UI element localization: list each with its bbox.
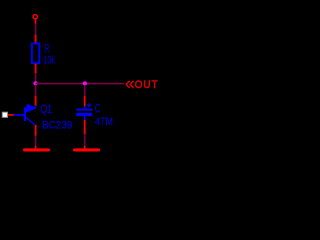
emitter lead bbox=[25, 116, 36, 125]
svg-text:10k: 10k bbox=[43, 55, 55, 67]
top stub bbox=[84, 106, 86, 110]
capacitor C1 symbol bbox=[76, 103, 92, 120]
wire net V+ to resistor bbox=[35, 24, 37, 36]
collector stub bbox=[35, 106, 37, 109]
svg-text:47M: 47M bbox=[95, 116, 113, 128]
capacitor C1 bottom pin bbox=[84, 120, 86, 135]
capacitor C1 top pin bbox=[84, 96, 86, 107]
transistor Q1 emitter pin bbox=[35, 125, 37, 136]
wire net node to capacitor bbox=[84, 85, 86, 97]
collector lead bbox=[25, 108, 30, 110]
collector arrow bbox=[26, 104, 35, 112]
wire net capacitor to ground bbox=[84, 134, 86, 147]
wire net emitter to ground bbox=[35, 136, 37, 147]
ground GND1 stem bbox=[35, 146, 37, 149]
base lead bbox=[14, 114, 25, 116]
top plate bbox=[76, 109, 92, 111]
bottom stub bbox=[84, 116, 86, 121]
bottom plate bbox=[76, 113, 92, 116]
ground GND1 bar bbox=[25, 148, 49, 151]
junction node cap bbox=[83, 81, 87, 85]
wire bus node to node bbox=[36, 83, 85, 85]
wire net node to collector bbox=[35, 85, 37, 97]
svg-text:OUT: OUT bbox=[135, 79, 159, 91]
transistor Q1 collector pin bbox=[35, 96, 37, 106]
resistor R1 bottom pin bbox=[35, 64, 37, 74]
wire net resistor to node bbox=[35, 73, 37, 82]
svg-text:Q1: Q1 bbox=[40, 104, 52, 116]
base bar bbox=[24, 107, 26, 121]
resistor R1 top pin bbox=[35, 35, 37, 44]
svg-text:BC239: BC239 bbox=[42, 120, 72, 132]
ground GND2 bar bbox=[75, 148, 99, 151]
OUT tag chevrons bbox=[126, 81, 133, 88]
wire net to OUT bbox=[85, 83, 125, 85]
power terminal circle bbox=[33, 15, 37, 19]
power pin stub bbox=[35, 19, 37, 24]
transistor Q1 symbol bbox=[14, 104, 36, 125]
svg-text:C: C bbox=[95, 103, 101, 115]
input terminal square bbox=[2, 112, 7, 117]
ground GND2 stem bbox=[84, 146, 86, 149]
plus sign bbox=[87, 104, 91, 106]
junction node collector bbox=[33, 81, 37, 85]
resistor R1 body bbox=[32, 43, 39, 63]
input terminal pin bbox=[8, 114, 14, 116]
